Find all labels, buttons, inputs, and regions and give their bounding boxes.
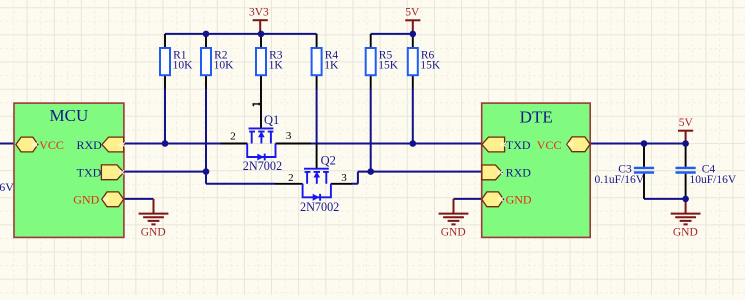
svg-text:2: 2 xyxy=(230,131,236,143)
wire/pins R1 xyxy=(164,34,166,90)
wire Q2 drain to DTE RXD xyxy=(352,172,482,184)
pin 3 lead of Q1 xyxy=(276,143,312,145)
pins of C3 xyxy=(643,144,645,199)
pin 3 lead of Q2 xyxy=(331,183,352,185)
sheet symbol DTE xyxy=(482,103,591,237)
svg-text:1K: 1K xyxy=(324,59,339,71)
wire/pins R4 to Q2 gate xyxy=(316,34,318,169)
svg-text:GND: GND xyxy=(441,226,466,238)
svg-text:1K: 1K xyxy=(269,59,284,71)
svg-text:2N7002: 2N7002 xyxy=(243,159,282,173)
junction C4 top / 5V xyxy=(682,140,689,147)
junction R6 top / 5V xyxy=(410,31,417,38)
wire MCU RXD net xyxy=(124,143,221,145)
wire/pins R6 xyxy=(412,34,414,90)
svg-text:10K: 10K xyxy=(173,59,194,71)
svg-text:3V3: 3V3 xyxy=(249,7,269,19)
svg-text:Q2: Q2 xyxy=(321,153,336,167)
svg-text:5V: 5V xyxy=(679,117,694,129)
wire capacitor bottoms to GND xyxy=(644,198,686,200)
pin 2 lead of Q1 xyxy=(221,143,248,145)
resistor R4 xyxy=(312,48,339,75)
resistor R5 xyxy=(366,48,399,75)
sheet entry DTE TXD xyxy=(482,137,531,152)
resistor R3 xyxy=(256,48,283,75)
sheet entry MCU RXD xyxy=(76,137,124,152)
svg-text:3: 3 xyxy=(286,130,292,142)
wire 3V3 rail xyxy=(165,33,317,35)
svg-text:15K: 15K xyxy=(378,59,399,71)
svg-text:VCC: VCC xyxy=(39,138,64,152)
svg-text:RXD: RXD xyxy=(76,138,102,152)
pin number 1 of Q1 (rotated) xyxy=(252,103,259,107)
svg-text:GND: GND xyxy=(73,193,99,207)
svg-text:MCU: MCU xyxy=(50,106,89,125)
svg-text:RXD: RXD xyxy=(506,166,532,180)
svg-text:5V: 5V xyxy=(405,7,420,19)
pins of C4 xyxy=(685,144,687,199)
junction R1 bottom xyxy=(162,140,169,147)
junction C4 bottom / GND xyxy=(682,196,689,203)
junction R6 bottom xyxy=(410,140,417,147)
sheet entry MCU GND xyxy=(73,192,123,207)
ground GND (capacitors) xyxy=(671,199,701,239)
sheet symbol MCU xyxy=(14,103,124,237)
wire/pins R5 xyxy=(370,34,372,90)
ground GND (DTE) xyxy=(439,199,469,239)
svg-text:3: 3 xyxy=(341,172,347,184)
wire MCU GND xyxy=(124,198,154,200)
wire 5V rail xyxy=(371,33,413,35)
svg-text:Q1: Q1 xyxy=(264,113,279,127)
junction R2 bottom xyxy=(203,168,210,175)
capacitor C4 xyxy=(676,163,737,185)
svg-text:10uF/16V: 10uF/16V xyxy=(690,174,737,186)
svg-text:GND: GND xyxy=(506,193,532,207)
resistor R6 xyxy=(408,48,441,75)
power port 3V3 xyxy=(249,7,269,34)
svg-text:2N7002: 2N7002 xyxy=(300,200,339,214)
junction R2 top xyxy=(203,31,210,38)
svg-text:VCC: VCC xyxy=(537,138,562,152)
svg-text:10K: 10K xyxy=(214,59,235,71)
sheet entry MCU VCC xyxy=(16,137,64,152)
svg-text:3.6V: 3.6V xyxy=(0,180,14,194)
wire MCU TXD net xyxy=(124,172,276,184)
sheet entry DTE GND xyxy=(482,192,532,207)
svg-text:2: 2 xyxy=(288,172,294,184)
svg-text:15K: 15K xyxy=(420,59,441,71)
sheet entry DTE VCC xyxy=(537,137,590,152)
junction C3 top xyxy=(641,140,648,147)
transistor Q2 xyxy=(303,169,331,201)
pin 2 lead of Q2 xyxy=(275,183,303,185)
ground GND (MCU) xyxy=(139,199,169,239)
wire DTE GND xyxy=(454,198,482,200)
resistor R1 xyxy=(160,48,193,75)
svg-text:TXD: TXD xyxy=(506,138,531,152)
resistor R2 xyxy=(201,48,234,75)
capacitor C3 xyxy=(595,164,655,186)
wire/pins R3 to Q1 gate xyxy=(260,34,262,128)
svg-text:0.1uF/16V: 0.1uF/16V xyxy=(595,174,645,186)
sheet entry MCU TXD xyxy=(77,165,125,180)
sheet entry DTE RXD xyxy=(482,165,531,180)
power port 5V (right) xyxy=(678,117,694,143)
wire/pins R2 xyxy=(205,34,207,90)
transistor Q1 xyxy=(247,128,275,160)
svg-text:GND: GND xyxy=(673,226,698,238)
wire from 3.6V supply to MCU VCC xyxy=(0,143,15,145)
power port 5V (top) xyxy=(405,7,420,34)
svg-text:DTE: DTE xyxy=(520,107,553,126)
svg-text:GND: GND xyxy=(141,226,166,238)
wire Q1 drain to DTE TXD xyxy=(311,143,482,145)
wire DTE VCC to 5V xyxy=(590,143,685,145)
svg-text:TXD: TXD xyxy=(77,166,102,180)
junction R5 bottom xyxy=(367,168,374,175)
junction R3 top / 3V3 xyxy=(258,31,265,38)
